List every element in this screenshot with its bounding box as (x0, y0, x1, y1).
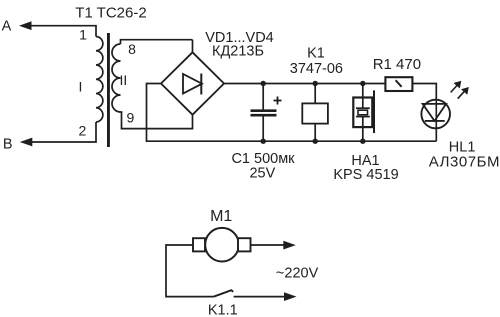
svg-text:K1: K1 (307, 46, 325, 62)
svg-text:9: 9 (127, 110, 135, 126)
svg-text:A: A (2, 19, 12, 35)
svg-text:КД213Б: КД213Б (212, 43, 264, 59)
svg-text:B: B (3, 136, 13, 152)
svg-text:II: II (120, 72, 128, 88)
svg-text:3747-06: 3747-06 (290, 61, 343, 77)
svg-text:25V: 25V (249, 165, 275, 181)
svg-text:R1 470: R1 470 (373, 56, 421, 73)
svg-text:АЛ307БМ: АЛ307БМ (429, 153, 500, 170)
svg-text:K1.1: K1.1 (208, 302, 238, 317)
svg-text:KPS 4519: KPS 4519 (333, 167, 398, 183)
svg-text:2: 2 (79, 122, 87, 138)
svg-text:8: 8 (128, 41, 136, 57)
svg-text:~220V: ~220V (276, 265, 319, 281)
svg-text:1: 1 (79, 27, 87, 43)
svg-text:I: I (79, 79, 83, 95)
svg-text:T1 TC26-2: T1 TC26-2 (75, 4, 146, 21)
svg-text:M1: M1 (210, 208, 232, 225)
